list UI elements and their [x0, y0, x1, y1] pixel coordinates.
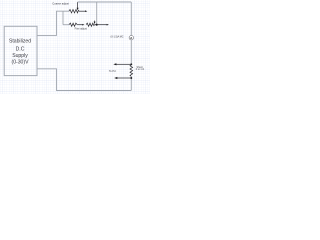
supply box: [4, 26, 37, 75]
fine output arrow stub: [97, 24, 107, 26]
svg-text:Fine adjust: Fine adjust: [75, 27, 88, 30]
resistor shunt zigzag: [130, 65, 133, 76]
svg-text:D.C: D.C: [16, 47, 25, 53]
svg-text:Supply: Supply: [12, 53, 28, 59]
svg-text:0 to 1 Ω: 0 to 1 Ω: [136, 68, 145, 71]
resistor fine rheostat zigzag 1: [69, 23, 77, 26]
coarse output arrow stub: [79, 10, 85, 12]
wire: top rail: [78, 1, 132, 3]
wire: supply negative to bottom rail: [37, 69, 131, 91]
resistor fine rheostat zigzag 2: [86, 23, 94, 26]
wire: drop from rail to fine row junction: [96, 2, 98, 25]
supply box label: [9, 38, 31, 65]
node dot lower tap: [130, 77, 132, 79]
wire: ammeter to shunt: [130, 40, 132, 65]
junction node dot: [96, 24, 98, 26]
svg-text:To Pd: To Pd: [109, 69, 116, 73]
wire: shunt to bottom rail: [130, 76, 132, 90]
wire: branch vertical to fine row: [62, 11, 64, 25]
svg-text:Coarse adjust: Coarse adjust: [52, 1, 69, 5]
lower potential tap arrow: [117, 77, 132, 79]
wire: lead to coarse rheostat: [63, 10, 69, 12]
wire: right vertical upper: [130, 2, 132, 36]
upper potential tap arrow: [116, 63, 131, 65]
ammeter A: [129, 36, 133, 40]
node dot upper tap: [130, 63, 132, 65]
wire: lead to fine rheostat: [63, 24, 69, 26]
svg-text:Stabilized: Stabilized: [9, 38, 31, 44]
svg-text:(0-1.5)A MC: (0-1.5)A MC: [111, 36, 124, 39]
fine wiper arrow (horizontal): [77, 24, 82, 26]
wire to junction: [94, 24, 96, 26]
wire: supply positive to rheostat node: [37, 11, 63, 35]
coarse wiper arm: [77, 2, 79, 8]
svg-text:(0-30)V: (0-30)V: [12, 59, 30, 65]
resistor coarse rheostat zigzag: [69, 10, 79, 13]
fine wiper tick: [94, 21, 96, 22]
